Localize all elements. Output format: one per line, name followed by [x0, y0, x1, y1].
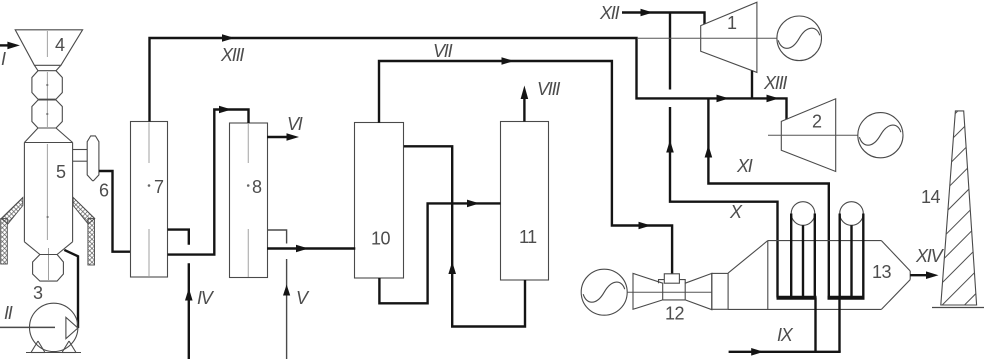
svg-text:VII: VII: [433, 41, 453, 61]
pipes vessel 5 to cyclone 6: [73, 150, 88, 162]
stream V: [267, 230, 290, 359]
gas turbine generator 12: [581, 269, 627, 315]
tube bundle left: [777, 202, 817, 298]
downpipe left header: [814, 298, 816, 352]
svg-text:13: 13: [872, 262, 892, 282]
stream II line: [0, 326, 55, 328]
cyclone 6: [87, 136, 99, 181]
turbine 1 exhaust wire: [751, 71, 753, 99]
support right: [73, 198, 95, 266]
downpipe right header: [838, 298, 840, 352]
wire column 10 bottoms to column 11: [379, 200, 500, 304]
support left: [1, 198, 23, 265]
stream VI: [267, 133, 299, 141]
column 7: [131, 122, 168, 278]
stream XIII main line from column 7 top: [150, 38, 787, 122]
slag lock hopper 3: [33, 255, 64, 282]
svg-text:7: 7: [154, 177, 164, 197]
svg-text:XIII: XIII: [763, 73, 787, 93]
stream I arrow: [0, 42, 20, 50]
tube bundle right: [828, 202, 865, 298]
svg-text:XIV: XIV: [915, 246, 945, 266]
HRSG 13 body: [728, 241, 910, 310]
svg-text:VI: VI: [287, 114, 303, 134]
svg-text:3: 3: [33, 283, 43, 303]
svg-text:VIII: VIII: [537, 79, 560, 99]
svg-text:2: 2: [812, 112, 822, 132]
svg-text:8: 8: [252, 177, 262, 197]
combustor 12: [659, 274, 686, 300]
wire column 7 bottoms to column 8 top: [168, 106, 249, 255]
compressor 12: [633, 273, 663, 309]
svg-text:5: 5: [56, 162, 66, 182]
arrow XIII top: [222, 34, 235, 42]
centerline feed train: [47, 31, 48, 280]
generator 1: [777, 16, 822, 61]
svg-text:1: 1: [727, 13, 737, 33]
exhaust duct 12 to HRSG: [712, 273, 728, 309]
stream IV: [168, 230, 193, 359]
stream VII from column 10 top to combustor: [379, 57, 672, 274]
arrow on feed to turbine 2 b: [767, 95, 780, 103]
wire cyclone 6 to column 7: [99, 171, 131, 252]
wire column 11 bottoms to column 10: [404, 146, 525, 326]
svg-text:12: 12: [665, 304, 685, 324]
column 8: [230, 123, 268, 278]
arrow on feed to turbine 2 a: [717, 95, 730, 103]
wire column 8 bottoms to column 10: [267, 245, 355, 253]
generator 2: [858, 113, 903, 158]
centerline dots: [46, 84, 48, 86]
chimney 14: [930, 57, 984, 359]
svg-text:II: II: [4, 303, 13, 323]
stream XIV: [910, 271, 938, 279]
column 10: [355, 123, 404, 279]
svg-text:10: 10: [371, 229, 391, 249]
stream VIII: [521, 86, 529, 122]
svg-text:6: 6: [99, 181, 109, 201]
stream IX: [729, 348, 841, 356]
shaft 12: [627, 291, 712, 293]
stream XI: [705, 98, 829, 297]
svg-text:4: 4: [55, 35, 65, 55]
stream XII: [622, 9, 705, 24]
turbine 2: [768, 99, 858, 172]
stream X riser to turbine 1: [666, 13, 777, 298]
turbine 12: [685, 273, 712, 309]
lock hopper A: [32, 71, 62, 100]
gasifier vessel 5: [24, 128, 72, 255]
hopper 4: [15, 30, 82, 71]
svg-text:XI: XI: [736, 156, 753, 176]
lock hopper B: [32, 100, 62, 128]
svg-text:11: 11: [519, 227, 537, 247]
pump II: [26, 303, 81, 352]
svg-text:XII: XII: [599, 3, 620, 23]
svg-text:14: 14: [921, 187, 941, 207]
wire vessel 5 to pump: [64, 250, 78, 328]
turbine 1: [637, 2, 777, 72]
svg-text:IX: IX: [777, 325, 794, 345]
column 11: [501, 122, 549, 281]
svg-text:XIII: XIII: [220, 45, 244, 65]
